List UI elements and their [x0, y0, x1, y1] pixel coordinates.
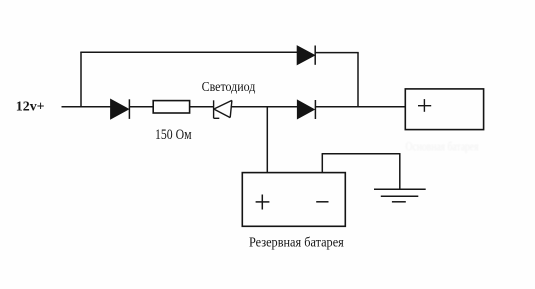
wire top branch right: [315, 52, 359, 54]
wire battery negative stub: [321, 154, 323, 173]
wire resistor to LED: [190, 106, 214, 108]
battery − terminal mark: [316, 201, 328, 203]
diode D3: [297, 100, 315, 119]
LED (Светодиод): [214, 100, 232, 118]
svg-text:Основная батарея: Основная батарея: [406, 139, 479, 154]
svg-text:Резервная батарея: Резервная батарея: [249, 235, 344, 250]
wire input: [62, 106, 112, 108]
ground: [374, 189, 426, 202]
wire top branch left: [80, 51, 297, 53]
svg-text:12v+: 12v+: [16, 99, 45, 114]
wire top branch drop: [357, 53, 359, 108]
wire ground drop: [399, 154, 401, 190]
battery + terminal mark: [256, 195, 270, 210]
resistor R1: [153, 101, 189, 113]
wire LED to diode D3: [231, 106, 298, 108]
load box: [405, 89, 483, 130]
wire battery to ground horizontal: [322, 153, 401, 155]
junction wire to battery positive: [266, 107, 268, 173]
wire diode D1 to resistor: [129, 106, 153, 108]
battery Резервная батарея: [242, 173, 345, 227]
diode D1: [111, 99, 130, 119]
diode D2 top bypass: [297, 46, 315, 65]
wire riser to top branch: [80, 52, 82, 107]
load box + mark: [418, 99, 431, 112]
svg-text:150 Ом: 150 Ом: [155, 127, 192, 143]
svg-text:Светодиод: Светодиод: [202, 80, 256, 95]
wire to load box: [315, 106, 405, 108]
